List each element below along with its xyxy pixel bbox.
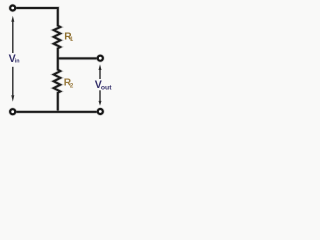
svg-text:out: out [101,84,112,91]
svg-text:2: 2 [70,82,74,89]
svg-text:in: in [15,58,20,64]
